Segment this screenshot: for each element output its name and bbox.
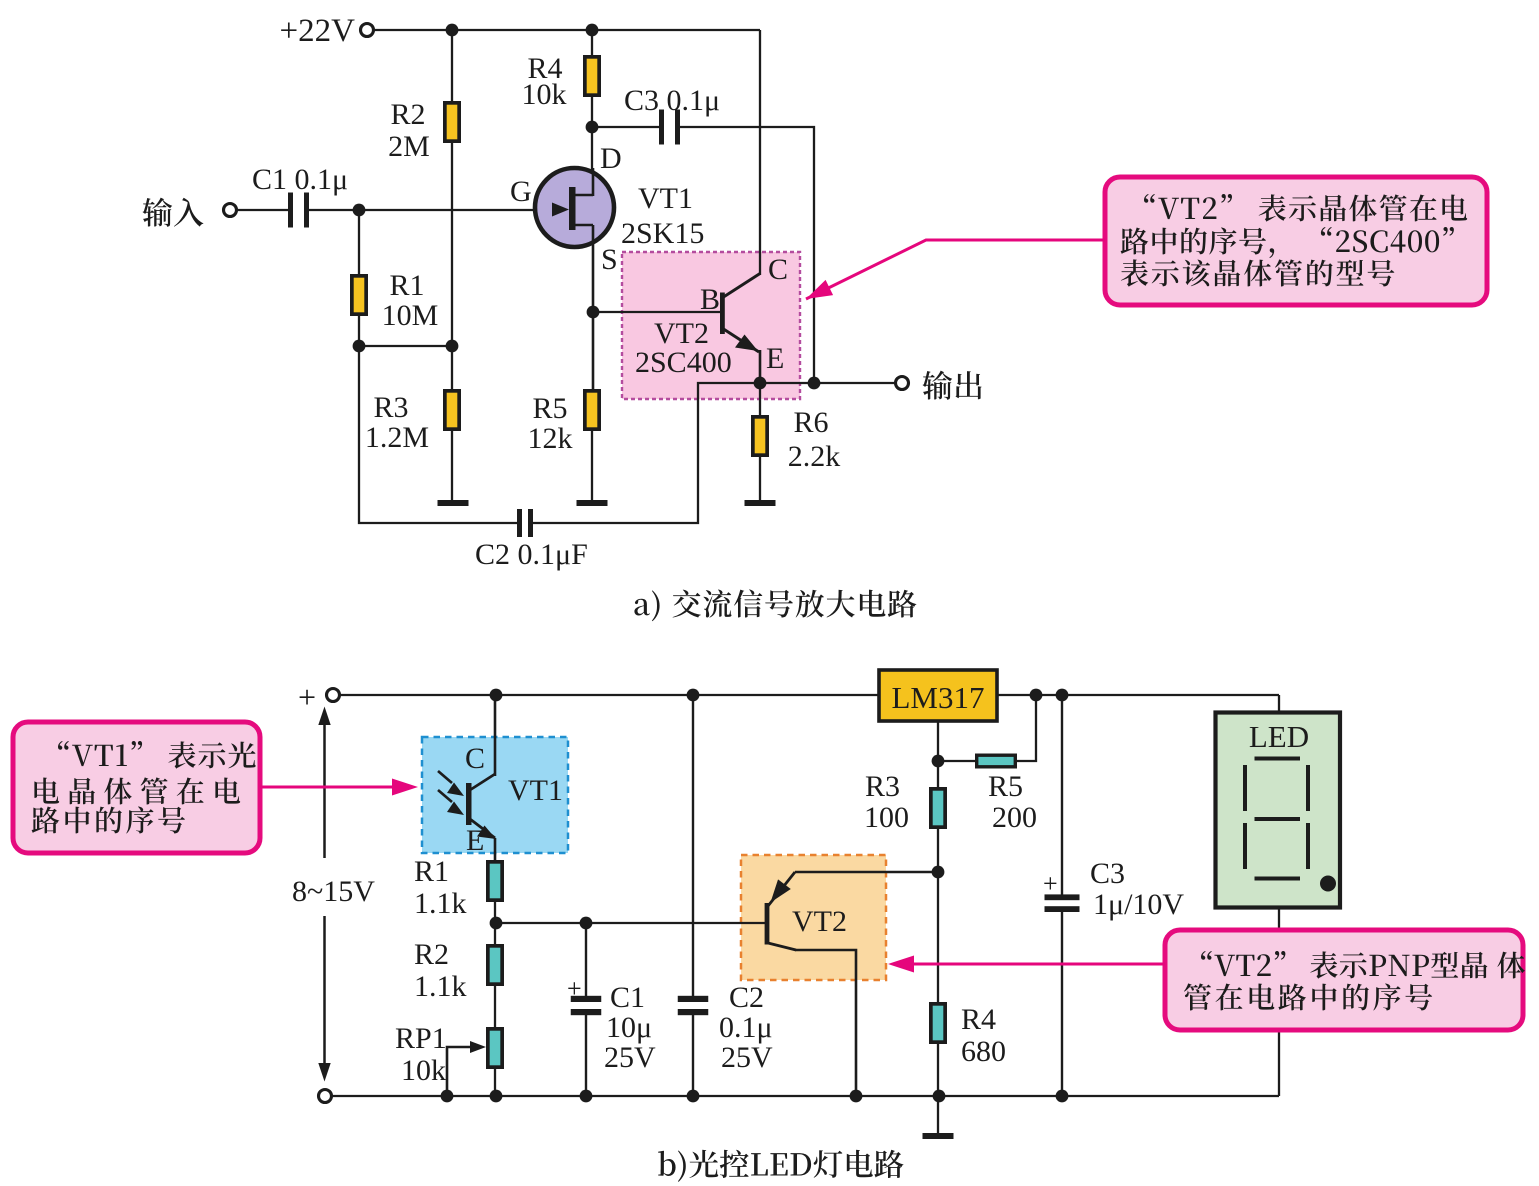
capacitor C1 (bottom, electrolytic) [571, 996, 602, 1015]
VT2 highlight box (pink dashed) [622, 252, 800, 399]
resistor R3 [445, 391, 459, 429]
svg-text:2SK15: 2SK15 [621, 217, 704, 250]
svg-text:8~15V: 8~15V [292, 875, 375, 908]
svg-text:LM317: LM317 [892, 680, 985, 715]
regulator LM317 [879, 670, 997, 721]
svg-text:S: S [601, 243, 618, 276]
capacitor C3 [659, 110, 680, 145]
node rail/R5b [1030, 689, 1043, 702]
svg-text:C: C [768, 253, 788, 286]
node rail/divider [490, 1090, 503, 1103]
resistor R3 (bottom) [931, 789, 945, 827]
node rail/VT1 [490, 689, 503, 702]
node rail/C1b [580, 1090, 593, 1103]
svg-text:+: + [298, 679, 316, 715]
svg-text:RP1: RP1 [395, 1022, 447, 1055]
label 输出 [923, 371, 982, 400]
node top-rail/R2 [446, 24, 459, 37]
ground (bottom circuit) [923, 1133, 954, 1139]
wire R5b left [938, 760, 975, 762]
svg-text:D: D [600, 142, 622, 175]
callout a text line2 [1121, 227, 1454, 258]
node divider/base-row [490, 917, 503, 930]
node rail/VT2b-emitter... (collector lead) [850, 1090, 863, 1103]
svg-text:10M: 10M [382, 299, 439, 332]
wire feedback up [533, 383, 760, 523]
svg-text:C2: C2 [729, 981, 764, 1014]
callout box a (VT2 explanation) [1105, 177, 1487, 305]
wire C1 to gate [306, 209, 556, 211]
callout c text line1 [1201, 951, 1525, 979]
svg-text:R5: R5 [988, 770, 1023, 803]
node adj/R5b [932, 755, 945, 768]
node base-row/C1b [580, 917, 593, 930]
capacitor C3 (bottom, electrolytic) [1045, 894, 1080, 912]
wire R6 upper [759, 383, 761, 417]
svg-text:R3: R3 [373, 391, 408, 424]
resistor R2 [445, 103, 459, 141]
svg-text:R1: R1 [389, 269, 424, 302]
wire LM317 adj down [937, 721, 939, 788]
wire source stub [592, 225, 595, 312]
svg-text:G: G [510, 175, 532, 208]
wire C1b upper [585, 923, 587, 1000]
svg-text:R2: R2 [414, 938, 449, 971]
svg-text:C1 0.1μ: C1 0.1μ [252, 163, 348, 196]
resistor R1 [352, 276, 366, 314]
svg-text:1μ/10V: 1μ/10V [1093, 888, 1184, 921]
terminal +22V [361, 24, 374, 37]
svg-text:E: E [766, 342, 784, 375]
node rail/C2b [687, 1090, 700, 1103]
svg-text:E: E [466, 824, 484, 857]
wire R2 column lower [451, 142, 453, 390]
label 输入 [143, 198, 204, 227]
LED 7-segment display [1216, 713, 1341, 908]
svg-text:+: + [1043, 869, 1058, 898]
wire input to C1 [237, 209, 290, 211]
node R1/R3 link left [353, 340, 366, 353]
callout a text line1 [1144, 194, 1467, 222]
wire R4 column upper [591, 30, 593, 57]
wire R6 lower [759, 456, 761, 500]
svg-text:200: 200 [992, 801, 1037, 834]
VT2 highlight box (orange dashed) [741, 855, 886, 980]
svg-text:1.1k: 1.1k [414, 887, 467, 920]
callout b arrow [260, 786, 406, 789]
resistor R6 [753, 417, 767, 455]
phototransistor VT1 [438, 771, 496, 839]
svg-text:10k: 10k [401, 1054, 446, 1087]
wire R1-R2 [494, 901, 496, 945]
svg-text:R2: R2 [390, 98, 425, 131]
transistor VT2 (PNP, bottom) [764, 872, 796, 950]
svg-text:2SC400: 2SC400 [635, 346, 732, 379]
terminal output [896, 377, 909, 390]
callout a text line3 [1121, 259, 1395, 286]
svg-text:B: B [700, 283, 720, 316]
wire R2-RP1 [494, 985, 496, 1028]
wire R5b right and up [1017, 695, 1036, 761]
svg-text:0.1μ: 0.1μ [719, 1011, 773, 1044]
resistor R5 [585, 391, 599, 429]
callout c arrow [898, 963, 1165, 966]
wire R4 to drain [591, 96, 593, 196]
svg-text:+: + [567, 974, 582, 1003]
terminal + supply [327, 689, 340, 702]
wire R2 column upper [451, 30, 453, 103]
potentiometer RP1 [488, 1029, 502, 1067]
wire VT1 emitter down [494, 838, 497, 861]
node emitter/output [754, 377, 767, 390]
bottom rail [333, 1095, 1279, 1097]
svg-text:R4: R4 [961, 1003, 996, 1036]
callout c text line2 [1184, 983, 1432, 1010]
svg-text:C: C [465, 742, 485, 775]
callout box c (VT2 PNP explanation) [1165, 930, 1523, 1030]
svg-text:R1: R1 [414, 855, 449, 888]
callout b text line3 [32, 807, 185, 834]
wire base VT2 [593, 311, 720, 313]
wire VT1 collector up [494, 695, 497, 776]
wire to ground (bottom) [937, 1096, 939, 1133]
svg-text:VT1: VT1 [638, 182, 693, 215]
svg-text:10k: 10k [522, 78, 567, 111]
capacitor C2 [517, 509, 533, 537]
svg-text:C1: C1 [610, 981, 645, 1014]
power rail +22V (top) [374, 29, 760, 31]
svg-text:R5: R5 [532, 392, 567, 425]
VT1 highlight box (blue dashed) [422, 737, 568, 853]
wire feedback left column down [359, 346, 519, 523]
node rail/C3b top [1056, 689, 1069, 702]
svg-text:12k: 12k [528, 422, 573, 455]
node R2/R3 link right [446, 340, 459, 353]
svg-text:VT2: VT2 [792, 905, 847, 938]
wire C3b upper [1061, 695, 1063, 898]
wire R4 down [937, 1043, 939, 1096]
svg-text:R6: R6 [793, 406, 828, 439]
node input/R1 [353, 204, 366, 217]
svg-text:R3: R3 [865, 770, 900, 803]
callout b text line1 [58, 741, 256, 769]
wire C1b lower [585, 1011, 587, 1096]
svg-text:1.1k: 1.1k [414, 970, 467, 1003]
wire VT2 emitter down [759, 350, 762, 383]
wire C3b lower [1061, 908, 1063, 1096]
ground R6 [745, 500, 776, 506]
wire R1 column lower [358, 315, 360, 346]
wire C3 right to output corner [677, 127, 814, 383]
wire base row to VT2b [496, 922, 765, 924]
ground R3 [438, 500, 469, 506]
wire VT2b top lead [795, 871, 939, 874]
resistor R4 (bottom) [931, 1004, 945, 1042]
svg-text:C3: C3 [1090, 857, 1125, 890]
node rail/C3b [1056, 1090, 1069, 1103]
svg-text:25V: 25V [721, 1041, 773, 1074]
RP1 wiper arrow [447, 1041, 486, 1096]
transistor VT1 2SK15 (JFET) [535, 168, 614, 247]
node rail/R4 [933, 1090, 946, 1103]
svg-text:LED: LED [1249, 719, 1309, 754]
terminal bottom rail [319, 1090, 332, 1103]
capacitor C2 (bottom) [678, 996, 709, 1015]
wire C3 left [592, 126, 662, 128]
svg-text:25V: 25V [604, 1041, 656, 1074]
svg-text:2M: 2M [388, 130, 430, 163]
svg-text:10μ: 10μ [606, 1011, 652, 1044]
node rail/RP1-wiper [441, 1090, 454, 1103]
wire R3 to ground [451, 430, 453, 500]
wire rail corner down to LED [1278, 695, 1280, 712]
resistor R5 (bottom, horizontal) [977, 755, 1016, 767]
svg-text:+22V: +22V [280, 13, 356, 49]
wire top rail to VT2 collector (vertical x=760) [759, 30, 761, 275]
wire R1 column upper [358, 210, 360, 276]
node R3/VT2b top lead [932, 866, 945, 879]
svg-text:C3 0.1μ: C3 0.1μ [624, 84, 720, 117]
caption b [658, 1150, 903, 1182]
wire R5 to ground [591, 430, 593, 500]
node top-rail/R4 [586, 24, 599, 37]
svg-text:680: 680 [961, 1035, 1006, 1068]
svg-text:C2 0.1μF: C2 0.1μF [475, 538, 588, 571]
wire VT2b bottom lead [795, 950, 856, 1096]
ground R5/VT1 [577, 500, 608, 506]
svg-text:1.2M: 1.2M [365, 421, 429, 454]
wire LED bottom down to rail [1278, 909, 1280, 1096]
callout a arrow [806, 240, 1105, 299]
wire R3 down [937, 828, 939, 1003]
svg-text:100: 100 [864, 801, 909, 834]
wire C2b lower [692, 1011, 694, 1096]
wire R5 source column [592, 312, 595, 391]
resistor R2 (bottom) [488, 946, 502, 984]
resistor R4 [585, 57, 599, 95]
svg-text:2.2k: 2.2k [788, 440, 841, 473]
wire drain stub [592, 168, 595, 196]
svg-text:VT1: VT1 [508, 774, 563, 807]
capacitor C1 [288, 193, 309, 228]
wire output row [760, 382, 895, 384]
node C3-return/output [808, 377, 821, 390]
wire rail after LM317 [997, 694, 1279, 696]
wire R1-R3 link [359, 345, 452, 347]
wire C2b upper [692, 695, 694, 1000]
callout box b (VT1 explanation) [13, 722, 260, 853]
transistor VT2 2SC400 (NPN) [720, 274, 760, 353]
wire RP1 to rail [494, 1068, 496, 1096]
caption a [634, 589, 916, 621]
resistor R1 (bottom) [488, 862, 502, 900]
voltage span arrow 8~15V [318, 707, 330, 1082]
callout b text line2 [34, 777, 240, 804]
terminal input [224, 204, 237, 217]
node drain/C3 [586, 121, 599, 134]
power rail + (bottom circuit) [341, 694, 879, 696]
node source/base [587, 306, 600, 319]
node rail/C2b [687, 689, 700, 702]
